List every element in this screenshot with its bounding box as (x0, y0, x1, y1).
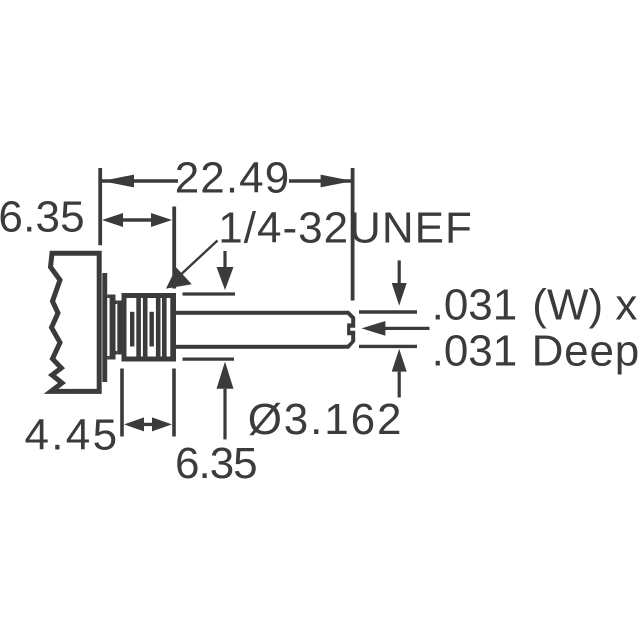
thread line full 1 (136, 296, 141, 360)
svg-text:(W) x: (W) x (532, 281, 637, 330)
bushing (threaded) outline (124, 296, 174, 360)
shaft OD down arrow (398, 260, 401, 283)
shaft OD up arrow (dia 3.162) (398, 372, 401, 398)
dim 22.49 left extension line (98, 168, 102, 245)
svg-text:Deep: Deep (532, 327, 640, 376)
dim 4.45 left extension line (120, 369, 124, 437)
svg-text:6.35: 6.35 (175, 439, 257, 488)
bushing OD up arrow (6.35) (223, 389, 226, 440)
slot width arrow (points left at slot) (385, 327, 430, 330)
shaft top edge (176, 311, 344, 315)
svg-text:22.49: 22.49 (175, 154, 291, 203)
bushing OD bottom reference line (183, 358, 235, 361)
thread line short 1 (130, 312, 134, 347)
dim 4.45 double arrow (138, 423, 158, 426)
dim 22.49 line right segment (289, 179, 352, 182)
shaft slotted tip (344, 311, 355, 349)
dim 22.49 right arrowhead (321, 175, 353, 188)
svg-text:.031: .031 (432, 281, 518, 330)
thread line full 3 (156, 296, 161, 360)
dim 22.49 left arrowhead (102, 175, 134, 188)
svg-text:.031: .031 (432, 327, 518, 376)
shaft bottom edge (176, 345, 344, 349)
dim 22.49 line left segment (102, 179, 178, 182)
flange (102, 273, 107, 382)
step 2 (neck) (117, 301, 121, 355)
shaft OD bottom reference line (359, 345, 417, 348)
leader arrowhead (166, 268, 192, 289)
svg-text:1/4-32UNEF: 1/4-32UNEF (218, 204, 473, 253)
svg-text:Ø3.162: Ø3.162 (248, 395, 404, 444)
dim 6.35 top right extension line (172, 207, 176, 289)
thread line full 2 (143, 296, 148, 360)
shaft OD top reference line (359, 310, 417, 313)
bushing OD down arrow (223, 251, 226, 267)
thread line full 4 (162, 296, 167, 360)
body (with break-line left edge) (51, 253, 100, 391)
svg-text:6.35: 6.35 (0, 193, 85, 242)
leader 1/4-32UNEF (172, 241, 218, 283)
bushing right edge thick (170, 293, 176, 362)
dim 4.45 right extension line (172, 369, 176, 437)
dim 6.35 top double arrow (118, 218, 156, 221)
svg-text:4.45: 4.45 (25, 411, 120, 460)
thread line short 2 (150, 312, 154, 347)
dim 22.49 right extension line (351, 168, 355, 301)
step 1 (110, 295, 116, 360)
bushing OD top reference line (183, 292, 236, 295)
